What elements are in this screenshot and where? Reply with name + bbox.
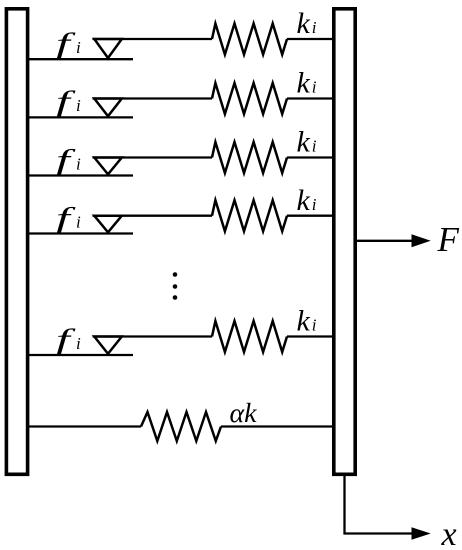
svg-text:αk: αk [230, 398, 258, 428]
wire row 5 to spring [93, 335, 213, 337]
label k_i row 1 [297, 7, 317, 40]
svg-text:i: i [76, 212, 81, 231]
label f_i row 2 [56, 85, 81, 118]
label k_i row 3 [297, 126, 317, 159]
label f_i row 4 [56, 201, 81, 234]
svg-text:i: i [76, 334, 81, 353]
force arrow F [356, 234, 431, 247]
moving bar (right) [334, 9, 355, 475]
svg-text:i: i [312, 137, 317, 156]
svg-text:k: k [297, 184, 311, 217]
spring k5 [212, 321, 287, 352]
svg-text:i: i [312, 316, 317, 335]
wire track row 5 [28, 354, 133, 356]
fixed wall bar (left) [6, 9, 27, 475]
spring k1 [212, 24, 287, 55]
svg-text:i: i [312, 18, 317, 37]
wire spring 4 to bar [287, 215, 335, 217]
svg-text:i: i [312, 195, 317, 214]
label k_i row 5 [297, 305, 317, 338]
svg-text:k: k [297, 305, 311, 338]
wire spring 1 to bar [287, 38, 335, 40]
wire row 3 to spring [93, 156, 213, 158]
spring k2 [212, 83, 287, 114]
svg-text:F: F [437, 220, 460, 259]
slider triangle f3 [94, 158, 122, 175]
svg-text:i: i [76, 96, 81, 115]
slider triangle f1 [94, 39, 122, 58]
wire spring ak to bar [221, 425, 335, 427]
displacement reference line x [345, 475, 431, 540]
svg-text:k: k [297, 7, 311, 40]
svg-text:k: k [297, 67, 311, 100]
wire spring 2 to bar [287, 97, 335, 99]
wire row 2 to spring [93, 97, 213, 99]
spring k4 [212, 200, 287, 231]
ellipsis dots [173, 272, 178, 300]
wire wall to spring ak [28, 425, 141, 427]
wire spring 3 to bar [287, 156, 335, 158]
slider triangle f4 [94, 216, 122, 233]
slider triangle f5 [94, 337, 122, 354]
wire row 4 to spring [93, 215, 213, 217]
slider triangle f2 [94, 99, 122, 117]
label alpha-k [230, 398, 258, 428]
wire track row 2 [28, 116, 133, 118]
spring k3 [212, 142, 287, 173]
svg-text:x: x [441, 516, 457, 550]
spring alpha-k [141, 412, 221, 441]
label k_i row 2 [297, 67, 317, 100]
wire row 1 to spring [93, 38, 213, 40]
label f_i row 3 [56, 143, 81, 176]
svg-text:i: i [76, 154, 81, 173]
svg-text:i: i [76, 38, 81, 57]
wire track row 3 [28, 174, 133, 176]
svg-text:k: k [297, 126, 311, 159]
label k_i row 4 [297, 184, 317, 217]
label f_i row 1 [56, 27, 81, 60]
label f_i row 5 [56, 323, 81, 356]
label F [437, 220, 460, 259]
wire track row 1 [28, 58, 133, 60]
label x [441, 516, 457, 550]
wire spring 5 to bar [287, 335, 335, 337]
wire track row 4 [28, 232, 133, 234]
svg-text:i: i [312, 78, 317, 97]
